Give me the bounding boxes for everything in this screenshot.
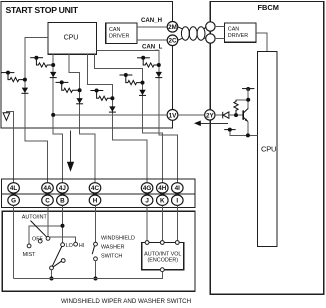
svg-text:CPU: CPU	[261, 145, 276, 154]
wire pin 4L to external arrow	[6, 111, 13, 182]
wire emitter net	[230, 122, 258, 136]
wiper arm to LO	[52, 246, 62, 266]
wire FBCM pin to CAN driver (CAN_L)	[215, 38, 224, 40]
wire signal net I (CPU to pin 4I)	[97, 51, 178, 183]
svg-text:J: J	[145, 198, 149, 205]
svg-text:AUTO/INT: AUTO/INT	[22, 214, 48, 220]
svg-text:CAN: CAN	[228, 27, 239, 33]
svg-text:WINDSHIELD WIPER AND WASHER SW: WINDSHIELD WIPER AND WASHER SWITCH	[61, 298, 191, 305]
svg-text:HI: HI	[79, 243, 84, 249]
svg-text:OFF: OFF	[32, 236, 43, 242]
ground rail wire	[14, 272, 163, 279]
resistor RI	[137, 56, 161, 67]
wire resistor top to collector	[236, 99, 248, 101]
svg-text:H: H	[93, 198, 98, 205]
resistor RJ	[30, 56, 55, 67]
wire pin K to encoder	[161, 205, 163, 240]
wire signal net H (CPU to pin 4H)	[95, 54, 163, 183]
svg-text:DRIVER: DRIVER	[109, 34, 129, 40]
svg-text:2C: 2C	[168, 38, 177, 45]
svg-text:B: B	[60, 198, 65, 205]
external signal arrow (hollow, down)	[3, 113, 10, 121]
svg-text:(ENCODER): (ENCODER)	[148, 258, 179, 264]
svg-text:DRIVER: DRIVER	[228, 33, 248, 39]
wire pin I to encoder	[176, 205, 178, 240]
wire pin C to wiper contact	[47, 205, 49, 236]
diode D2 (FBCM, points left)	[223, 112, 229, 119]
contact OFF	[38, 239, 42, 243]
resistor RA	[2, 71, 27, 82]
CAN DRIVER U3 (FBCM)	[225, 23, 257, 42]
svg-text:1V: 1V	[169, 112, 178, 119]
svg-text:C: C	[45, 198, 50, 205]
pin 4L	[8, 183, 20, 193]
wire pin G to ground rail	[13, 205, 15, 278]
pin 4H	[157, 183, 169, 193]
CPU U4 (FBCM)	[258, 52, 278, 247]
svg-text:G: G	[11, 198, 16, 205]
wiper arm to mid	[53, 261, 61, 267]
diode DI	[155, 72, 162, 78]
diode DC	[76, 98, 83, 104]
pin B	[57, 195, 69, 205]
connector pin 1V	[167, 110, 178, 121]
svg-text:FBCM: FBCM	[258, 3, 279, 12]
wire FBCM pin to CAN driver (CAN_H)	[215, 26, 224, 28]
svg-text:4C: 4C	[91, 185, 100, 192]
svg-text:CAN: CAN	[109, 27, 120, 33]
wire CAN_H	[137, 26, 167, 28]
pin H	[89, 195, 101, 205]
pin I	[172, 195, 184, 205]
svg-text:2M: 2M	[168, 24, 177, 31]
connector strip	[2, 179, 196, 208]
transistor Q1 (NPN)	[243, 108, 248, 121]
svg-text:START STOP UNIT: START STOP UNIT	[6, 5, 79, 15]
wire 2Y to diode	[215, 114, 222, 116]
contact common C	[46, 237, 50, 241]
switch assembly enclosure	[2, 211, 195, 291]
resistor RC	[56, 80, 82, 92]
FBCM pin (CAN_H side)	[206, 22, 215, 31]
FBCM pin (CAN_L side)	[206, 34, 215, 43]
diode DJ	[50, 72, 57, 78]
contact MIST	[27, 244, 31, 248]
wire CAN_L	[137, 39, 167, 41]
pin K	[157, 195, 169, 205]
connector pin 2C	[167, 35, 178, 46]
wire signal net C (CPU to pin 4C)	[69, 54, 95, 183]
diode DA	[21, 88, 28, 94]
wire C contact to HI contact	[50, 237, 76, 242]
svg-text:AUTO/INT VOL: AUTO/INT VOL	[144, 252, 181, 258]
wire CAN driver to FBCM CPU	[256, 33, 267, 51]
wire signal net A (CPU to pin 4A)	[25, 38, 48, 183]
wire collector net	[247, 89, 249, 109]
FBCM input circuit: supply stub	[242, 87, 254, 91]
svg-text:SWITCH: SWITCH	[101, 253, 122, 259]
arrow signal direction (points left, from FBCM)	[194, 121, 228, 127]
svg-text:4A: 4A	[43, 185, 52, 192]
wire signal net G (CPU to pin 4G)	[87, 54, 147, 183]
wire pin B to LO contact	[62, 205, 64, 242]
pin J	[141, 195, 153, 205]
svg-text:WINDSHIELD: WINDSHIELD	[101, 236, 135, 242]
svg-text:LO: LO	[66, 243, 73, 249]
svg-text:CAN_L: CAN_L	[142, 43, 163, 50]
pin 4J	[57, 183, 69, 193]
pin 4G	[141, 183, 153, 193]
wire 1V net tap	[51, 113, 167, 117]
svg-text:2Y: 2Y	[206, 112, 215, 119]
svg-text:4G: 4G	[143, 185, 152, 192]
diode DG	[109, 106, 116, 112]
twisted pair wires	[178, 27, 206, 41]
svg-text:I: I	[176, 198, 178, 205]
svg-text:4J: 4J	[59, 185, 67, 192]
svg-text:MIST: MIST	[23, 252, 37, 258]
emitter feed stub	[224, 128, 235, 132]
diode DH	[139, 90, 146, 96]
pin 4I	[172, 183, 184, 193]
contact common low	[50, 266, 54, 270]
FBCM enclosure	[210, 2, 323, 295]
mechanical arrow from CPU to wiper switch	[67, 131, 74, 172]
pin C	[42, 195, 54, 205]
resistor R2 (FBCM)	[234, 100, 238, 115]
svg-text:4I: 4I	[175, 185, 181, 192]
svg-text:4H: 4H	[158, 185, 167, 192]
contact HI	[74, 242, 78, 246]
wire diode to base	[229, 114, 243, 116]
svg-text:CPU: CPU	[64, 32, 79, 41]
wiper switch S1	[22, 214, 85, 280]
connector pin 2M	[167, 22, 178, 33]
connector pin 2Y	[205, 110, 215, 120]
pin 4A	[42, 183, 54, 193]
wire pin H to washer switch	[95, 205, 97, 242]
wire 1V to 2Y	[178, 114, 205, 116]
resistor RH	[120, 73, 145, 85]
svg-text:4L: 4L	[10, 185, 18, 192]
contact LO	[61, 243, 65, 247]
wire signal net J (CPU to pin 4J)	[53, 54, 62, 183]
wire common to rail	[51, 270, 53, 279]
svg-text:WASHER: WASHER	[101, 245, 125, 251]
START STOP UNIT enclosure	[1, 2, 173, 129]
CAN DRIVER U2 (start stop unit)	[106, 23, 137, 44]
pin 4C	[89, 183, 101, 193]
svg-text:K: K	[160, 198, 165, 205]
washer switch S2	[92, 236, 135, 281]
encoder (AUTO/INT VOL)	[142, 241, 184, 272]
wire pin J to encoder	[146, 205, 148, 240]
wiper arm AUTO/INT	[31, 221, 47, 238]
svg-text:CAN_H: CAN_H	[141, 17, 162, 24]
contact mid	[61, 259, 65, 263]
pin G	[8, 195, 20, 205]
wire AUTO/INT feed	[29, 226, 63, 244]
resistor RG	[90, 89, 114, 101]
CPU U1 (start stop unit)	[48, 23, 97, 55]
